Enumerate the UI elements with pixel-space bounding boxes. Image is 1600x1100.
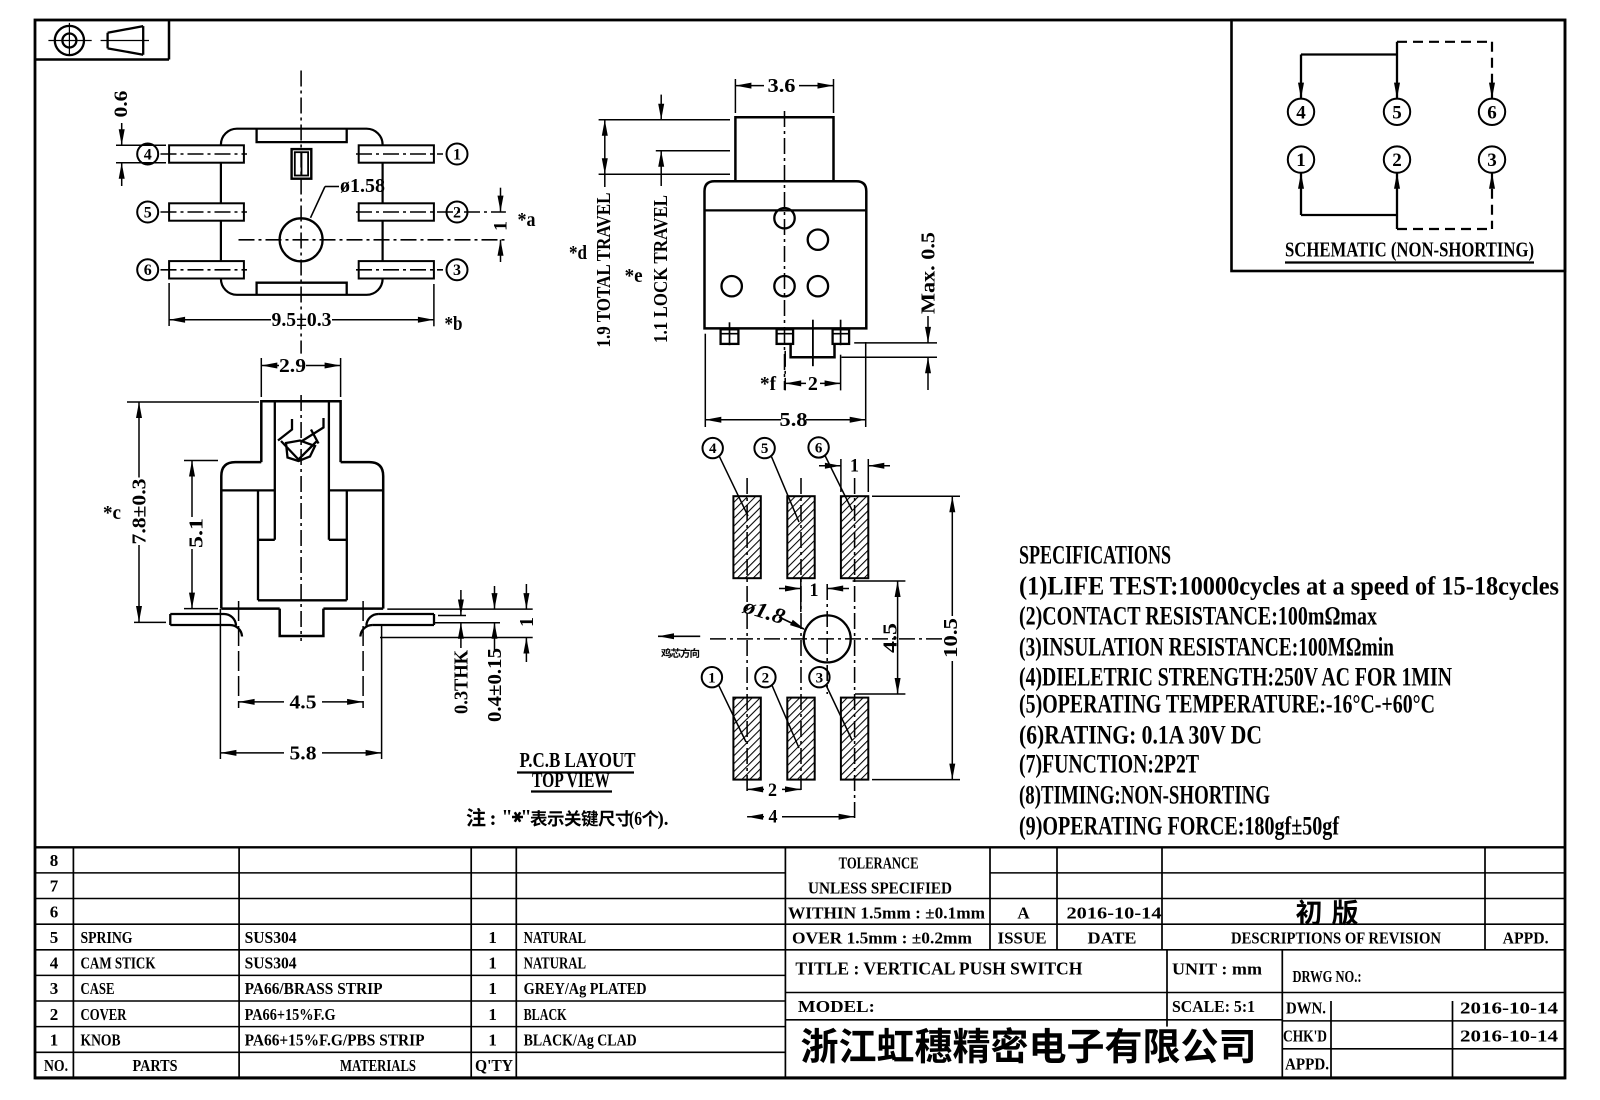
svg-text:COVER: COVER (81, 1005, 128, 1024)
svg-text:SPRING: SPRING (81, 928, 133, 947)
svg-text:(8)TIMING:NON-SHORTING: (8)TIMING:NON-SHORTING (1019, 780, 1270, 809)
svg-text:NATURAL: NATURAL (524, 954, 587, 973)
svg-text:2.9: 2.9 (279, 355, 306, 377)
svg-text:SUS304: SUS304 (245, 954, 297, 973)
svg-text:6: 6 (1487, 102, 1497, 123)
svg-text:SCALE: 5:1: SCALE: 5:1 (1172, 997, 1255, 1016)
svg-text:UNLESS SPECIFIED: UNLESS SPECIFIED (808, 879, 952, 898)
svg-text:5.1: 5.1 (185, 518, 207, 548)
svg-text:1: 1 (488, 928, 497, 947)
svg-text:2016-10-14: 2016-10-14 (1460, 1027, 1559, 1046)
svg-text:2: 2 (50, 1005, 59, 1024)
svg-text:(4)DIELETRIC STRENGTH:250V AC: (4)DIELETRIC STRENGTH:250V AC FOR 1MIN (1019, 662, 1452, 691)
svg-text:NO.: NO. (44, 1056, 68, 1075)
svg-text:2: 2 (1392, 150, 1402, 171)
svg-text:KNOB: KNOB (81, 1030, 121, 1049)
svg-text:2: 2 (768, 780, 777, 801)
svg-text:PARTS: PARTS (133, 1056, 178, 1075)
svg-text:3: 3 (50, 979, 59, 998)
svg-text:4: 4 (50, 954, 59, 973)
svg-text:UNIT : mm: UNIT : mm (1172, 960, 1262, 979)
svg-text:0.3THK: 0.3THK (450, 650, 472, 714)
svg-text:ISSUE: ISSUE (998, 929, 1047, 948)
svg-text:DATE: DATE (1088, 929, 1137, 948)
svg-text:*b: *b (445, 313, 463, 335)
svg-text:).: ). (658, 808, 669, 830)
svg-text:8: 8 (50, 851, 59, 870)
svg-text:5: 5 (50, 928, 59, 947)
svg-text:CAM STICK: CAM STICK (81, 954, 157, 973)
svg-text:Q'TY: Q'TY (475, 1056, 513, 1075)
svg-text:2: 2 (453, 204, 461, 221)
svg-text:APPD.: APPD. (1503, 929, 1549, 948)
svg-text:3.6: 3.6 (768, 75, 796, 97)
svg-text:OVER 1.5mm : ±0.2mm: OVER 1.5mm : ±0.2mm (792, 929, 972, 948)
svg-text:Max. 0.5: Max. 0.5 (917, 232, 939, 314)
svg-text:2: 2 (808, 373, 818, 395)
svg-text:3: 3 (453, 262, 461, 279)
svg-text:1: 1 (453, 146, 461, 163)
svg-text:7: 7 (50, 877, 59, 896)
svg-text:1: 1 (1296, 150, 1306, 171)
svg-text:3: 3 (1487, 150, 1497, 171)
svg-text:1.9 TOTAL TRAVEL: 1.9 TOTAL TRAVEL (593, 193, 615, 348)
svg-text:4: 4 (1296, 102, 1306, 123)
svg-text:1: 1 (488, 1005, 497, 1024)
svg-text:3: 3 (816, 670, 824, 686)
svg-text:1: 1 (488, 979, 497, 998)
svg-text:4.5: 4.5 (290, 691, 317, 713)
svg-text:DRWG NO.:: DRWG NO.: (1293, 967, 1362, 986)
svg-text:2016-10-14: 2016-10-14 (1460, 999, 1559, 1018)
svg-text:5: 5 (144, 204, 152, 221)
svg-text:GREY/Ag PLATED: GREY/Ag PLATED (524, 979, 647, 998)
svg-text:1: 1 (488, 1030, 497, 1049)
svg-text:4: 4 (769, 807, 778, 828)
svg-text:(9)OPERATING FORCE:180gf±50gf: (9)OPERATING FORCE:180gf±50gf (1019, 812, 1339, 841)
svg-text:10.5: 10.5 (940, 618, 962, 658)
svg-text:SCHEMATIC (NON-SHORTING): SCHEMATIC (NON-SHORTING) (1285, 238, 1534, 262)
svg-text:1: 1 (850, 456, 859, 477)
svg-text:ø1.58: ø1.58 (340, 175, 385, 197)
svg-text:(3)INSULATION RESISTANCE:100MΩ: (3)INSULATION RESISTANCE:100MΩmin (1019, 632, 1394, 661)
svg-text:*a: *a (518, 209, 536, 231)
svg-text:(2)CONTACT RESISTANCE:100mΩmax: (2)CONTACT RESISTANCE:100mΩmax (1019, 602, 1377, 631)
svg-text:SPECIFICATIONS: SPECIFICATIONS (1019, 540, 1171, 569)
svg-text:BLACK: BLACK (524, 1005, 568, 1024)
svg-text:BLACK/Ag CLAD: BLACK/Ag CLAD (524, 1030, 637, 1049)
svg-text:5.8: 5.8 (780, 409, 808, 431)
svg-text:5: 5 (761, 441, 769, 457)
svg-text:(5)OPERATING TEMPERATURE:-16°C: (5)OPERATING TEMPERATURE:-16°C-+60°C (1019, 689, 1435, 718)
svg-text:1: 1 (810, 580, 819, 601)
svg-text:4: 4 (144, 146, 152, 163)
svg-text:2016-10-14: 2016-10-14 (1067, 904, 1163, 923)
svg-text:NATURAL: NATURAL (524, 928, 587, 947)
svg-text:A: A (1017, 904, 1030, 923)
svg-text:(7)FUNCTION:2P2T: (7)FUNCTION:2P2T (1019, 749, 1199, 778)
svg-text:2: 2 (762, 670, 770, 686)
svg-text:1: 1 (491, 221, 512, 231)
svg-text:APPD.: APPD. (1285, 1055, 1329, 1074)
svg-text:MODEL:: MODEL: (798, 997, 875, 1016)
svg-text:WITHIN 1.5mm : ±0.1mm: WITHIN 1.5mm : ±0.1mm (788, 904, 985, 923)
svg-text:": " (501, 806, 512, 828)
svg-text:1: 1 (708, 670, 716, 686)
svg-text:CHK'D: CHK'D (1283, 1027, 1327, 1046)
svg-text:PA66+15%F.G: PA66+15%F.G (245, 1005, 336, 1024)
svg-text:(6: (6 (629, 808, 642, 830)
svg-text:1: 1 (488, 954, 497, 973)
svg-text:*d: *d (569, 242, 587, 264)
svg-text:5.8: 5.8 (290, 742, 317, 764)
svg-text:MATERIALS: MATERIALS (340, 1056, 416, 1075)
svg-text:TOLERANCE: TOLERANCE (839, 854, 919, 873)
svg-text:9.5±0.3: 9.5±0.3 (272, 309, 332, 331)
svg-text:TITLE : VERTICAL PUSH SWITCH: TITLE : VERTICAL PUSH SWITCH (795, 959, 1082, 979)
svg-text:TOP VIEW: TOP VIEW (532, 768, 610, 792)
svg-text:0.4±0.15: 0.4±0.15 (484, 648, 506, 722)
svg-text:*f: *f (760, 373, 776, 395)
svg-text:6: 6 (144, 262, 152, 279)
svg-text:6: 6 (50, 902, 59, 921)
svg-text::: : (490, 806, 497, 830)
svg-text:6: 6 (815, 441, 823, 457)
svg-text:5: 5 (1392, 102, 1402, 123)
svg-text:7.8±0.3: 7.8±0.3 (128, 479, 150, 545)
svg-text:*c: *c (103, 502, 121, 524)
svg-text:4.5: 4.5 (879, 623, 901, 653)
svg-text:1.1 LOCK TRAVEL: 1.1 LOCK TRAVEL (650, 195, 672, 343)
svg-text:1: 1 (516, 617, 538, 627)
svg-text:(6)RATING: 0.1A 30V DC: (6)RATING: 0.1A 30V DC (1019, 720, 1262, 749)
svg-text:": " (520, 806, 531, 828)
svg-text:(1)LIFE TEST:10000cycles at a: (1)LIFE TEST:10000cycles at a speed of 1… (1019, 572, 1559, 601)
svg-text:PA66/BRASS STRIP: PA66/BRASS STRIP (245, 979, 383, 998)
svg-text:DESCRIPTIONS OF REVISION: DESCRIPTIONS OF REVISION (1231, 929, 1442, 948)
svg-text:4: 4 (709, 441, 717, 457)
svg-text:0.6: 0.6 (111, 91, 132, 118)
svg-text:1: 1 (50, 1030, 59, 1049)
svg-text:PA66+15%F.G/PBS STRIP: PA66+15%F.G/PBS STRIP (245, 1030, 425, 1049)
svg-text:DWN.: DWN. (1286, 999, 1326, 1018)
svg-text:CASE: CASE (81, 979, 115, 998)
svg-text:*e: *e (625, 265, 643, 287)
svg-text:SUS304: SUS304 (245, 928, 297, 947)
